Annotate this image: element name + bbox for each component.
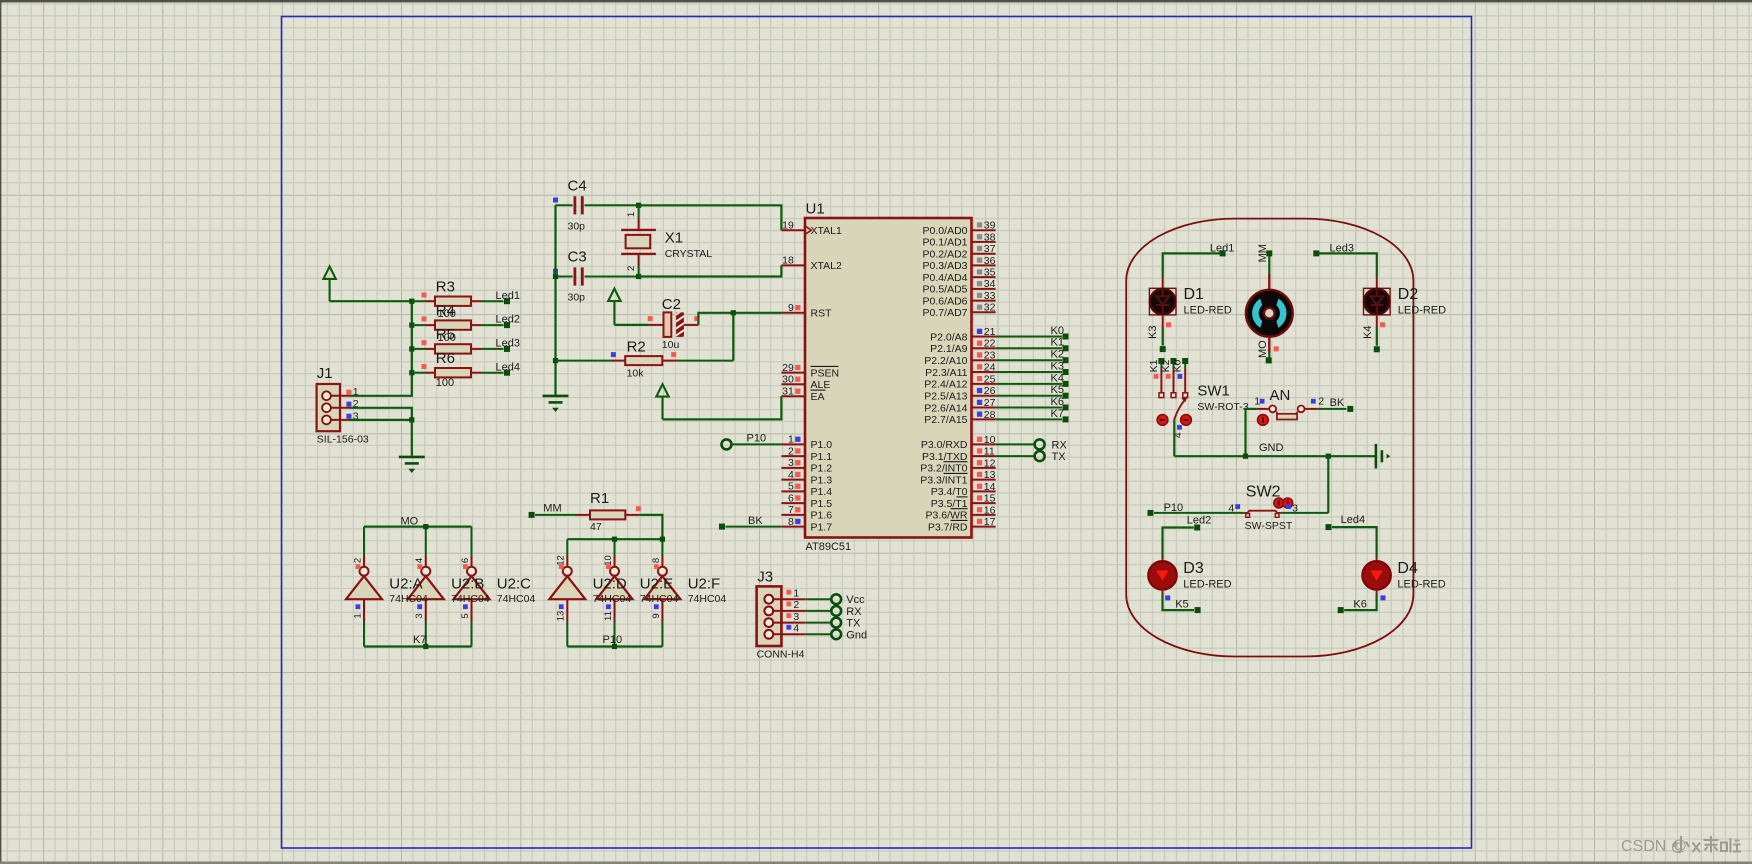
svg-text:R2: R2 [627,339,646,356]
terminal K0 [1182,358,1188,364]
svg-text:P1.1: P1.1 [811,451,833,463]
U1 pin 31 EA [781,386,824,404]
svg-text:MO: MO [1257,340,1269,358]
svg-text:J3: J3 [757,569,773,586]
svg-text:23: 23 [984,350,996,362]
wire J1 pin2 down [350,408,412,420]
svg-text:2: 2 [626,266,637,271]
SW1 contact square K2 [1171,393,1176,398]
J1 pin indicators [346,390,351,395]
overline T1 (P3.5) [957,496,968,498]
svg-text:BK: BK [748,515,763,527]
U1 pin 29 PSEN [781,362,839,380]
junction C4/X1 pin1 [636,203,641,208]
svg-text:SW1: SW1 [1197,383,1230,400]
svg-text:11: 11 [603,611,614,621]
svg-text:100: 100 [436,377,454,389]
junction resistor bus [409,370,414,375]
svg-text:P10: P10 [747,433,767,445]
SW1 contact square K1 [1159,393,1164,398]
terminal K2 [1063,357,1069,363]
LED D1 (off) [1149,288,1176,315]
svg-text:Led4: Led4 [496,361,520,373]
wire P10 to SW2 [1154,512,1244,514]
wire K3 [996,371,1062,373]
svg-text:SIL-156-03: SIL-156-03 [317,434,369,446]
resistor R5 [412,340,481,353]
power terminal VCC (left) [323,267,335,302]
AN press indicator [1258,415,1269,426]
svg-text:18: 18 [782,255,794,267]
svg-text:2: 2 [793,599,799,611]
terminal K2 [1171,358,1177,364]
svg-text:U1: U1 [806,201,825,218]
svg-text:4: 4 [414,558,425,563]
svg-text:P3.1/TXD: P3.1/TXD [922,451,968,463]
U1 pin 25 P2.4/A12 [924,373,995,390]
connector J3 [757,586,806,646]
SW1 end-stop left [1157,415,1168,426]
motor MM [1246,274,1293,353]
wire D1 cathode to K3 [1162,316,1164,327]
svg-text:P1.5: P1.5 [811,498,833,510]
U1 pin 36 P0.3/AD3 [923,255,996,272]
svg-text:6: 6 [460,558,471,563]
terminal K7 [1063,416,1069,422]
svg-text:RX: RX [1052,439,1068,451]
terminal Led2 [504,322,510,328]
svg-text:AN: AN [1270,387,1291,404]
U1 pin 32 P0.7/AD7 [923,302,996,319]
svg-text:C3: C3 [568,249,587,266]
resistor R6 [412,364,481,377]
capacitor C3 [553,267,639,285]
wire left decoupling bus [554,205,556,394]
wire K6 [996,407,1062,409]
U1 pin 38 P0.1/AD1 [923,231,996,248]
svg-text:P2.5/A13: P2.5/A13 [924,391,967,403]
ground (J1) [399,457,425,473]
inverter U2:A 74HC04 [346,527,382,647]
svg-text:2: 2 [1318,395,1324,407]
wire TX [996,455,1034,457]
svg-text:Led4: Led4 [1341,514,1365,526]
svg-text:7: 7 [788,504,794,516]
svg-text:K2: K2 [1051,349,1064,361]
svg-text:1: 1 [793,587,799,599]
svg-text:P3.0/RXD: P3.0/RXD [921,439,968,451]
overline EA [811,389,826,391]
svg-text:R3: R3 [436,279,455,296]
terminal Led4 [1326,524,1332,530]
svg-text:100: 100 [438,332,456,344]
svg-text:MM: MM [543,502,561,514]
svg-text:39: 39 [984,220,996,232]
svg-text:RX: RX [846,606,862,618]
svg-text:47: 47 [590,521,602,533]
wire SW1 contact K2 [1173,363,1175,369]
U1 pin 23 P2.2/A10 [924,350,995,367]
U1 pin 8 P1.7 [781,516,832,534]
overline INT1 [944,472,968,474]
wire GND bus [1174,455,1376,457]
terminal P10 (mouse) [1148,510,1154,516]
wire D3 cathode to K5 [1162,589,1164,594]
terminal K3 [1063,369,1069,375]
resistor R2 [556,352,734,365]
junction C3/X1 pin2 [636,274,641,279]
wire K1 [996,347,1062,349]
terminal K6 [1338,607,1344,613]
svg-text:K4: K4 [1051,372,1064,384]
svg-text:SW2: SW2 [1246,484,1281,501]
wire to ground [411,420,413,456]
svg-text:31: 31 [782,386,794,398]
connector J1 [317,384,350,431]
LED D2 (off) [1364,288,1391,315]
terminal Led3 [1313,250,1319,256]
inverter U2:B 74HC04 [408,527,444,647]
U1 pin 21 P2.0/A8 [930,326,996,343]
wire D4 cathode to K6 [1376,589,1378,594]
terminal K3 [1160,346,1166,352]
capacitor C4 [553,196,639,214]
sheet border frame [282,17,1472,849]
svg-text:R1: R1 [590,490,609,507]
U1 pin 28 P2.7/A15 [924,409,995,426]
wire J3 pin 1 to Vcc [805,598,830,600]
wire SW1 contact K0 [1184,363,1186,369]
wire R1 to U2:D-F bus [640,515,663,539]
switch SW1 rotor lever [1174,399,1186,420]
junction AN/GND [1243,454,1248,459]
ground (mouse, sideways) [1376,444,1390,469]
svg-text:K1: K1 [1051,337,1064,349]
U1 pin 37 P0.2/AD2 [923,243,996,260]
terminal Vcc [831,594,841,604]
mouse body outline [1126,219,1413,657]
terminal K5 [1063,393,1069,399]
svg-text:3: 3 [414,613,425,618]
U1 pin 2 P1.1 [781,445,832,463]
svg-text:Gnd: Gnd [846,629,867,641]
svg-text:22: 22 [984,338,996,350]
terminal Gnd [831,629,841,639]
U1 pin 34 P0.5/AD5 [923,278,996,296]
svg-text:10: 10 [984,434,996,446]
svg-text:RST: RST [811,308,833,320]
U1 pin 35 P0.4/AD4 [923,267,996,284]
svg-text:4: 4 [793,623,799,635]
inverter U2:E 74HC04 [597,539,633,646]
svg-text:27: 27 [984,397,996,409]
svg-text:U2:C: U2:C [497,576,531,593]
svg-text:P0.1/AD1: P0.1/AD1 [923,237,968,249]
terminal K4 [1374,346,1380,352]
wire K4 [996,383,1062,385]
U1 pin 3 P1.2 [781,457,832,475]
J3 pin 4 indicator [786,625,791,630]
wire RST node down to R2 [732,313,734,361]
svg-text:11: 11 [984,446,995,458]
junction MO bus [423,524,428,529]
svg-text:25: 25 [984,373,996,385]
terminal K0 [1063,334,1069,340]
wire motor bottom to MO [1268,353,1270,358]
svg-text:LED-RED: LED-RED [1397,579,1445,591]
terminal K6 [1063,405,1069,411]
svg-text:U2:B: U2:B [451,576,484,593]
U1 pin 13 P3.3/INT1 [920,469,995,486]
wire Led4 to D4 [1332,527,1377,557]
wire VCC to C2 [614,324,649,326]
svg-text:36: 36 [984,255,996,267]
terminal RX [1035,439,1045,449]
svg-text:28: 28 [984,409,996,421]
junction SW2/GND [1326,454,1331,459]
junction resistor bus [409,346,414,351]
U1 pin 27 P2.6/A14 [924,397,995,414]
U1 pin 18 XTAL2 [781,255,842,273]
svg-text:15: 15 [984,493,996,505]
svg-text:K7: K7 [1051,408,1064,420]
U1 pin 12 P3.2/INT0 [920,457,995,474]
svg-text:CONN-H4: CONN-H4 [757,648,805,660]
U1 pin 17 P3.7/RD [928,516,996,533]
svg-text:P2.6/A14: P2.6/A14 [924,402,967,414]
svg-text:EA: EA [811,391,825,403]
terminal RX [831,606,841,616]
svg-text:1: 1 [626,212,637,217]
svg-text:8: 8 [651,558,662,563]
wire C2 to RST [698,313,781,325]
wire R1 output bus (U2:D-F outputs) [567,538,662,540]
svg-text:LED-RED: LED-RED [1184,305,1232,317]
switch SW2 SW-SPST [1244,511,1281,518]
svg-text:5: 5 [460,613,471,618]
terminal K4 [1063,381,1069,387]
svg-text:P0.7/AD7: P0.7/AD7 [923,307,968,319]
wire SW1 contact K1 [1160,363,1162,369]
svg-text:12: 12 [984,457,996,469]
svg-text:74HC04: 74HC04 [593,593,632,605]
svg-text:Led2: Led2 [496,314,520,326]
svg-text:K0: K0 [1172,359,1184,372]
svg-text:P2.0/A8: P2.0/A8 [930,331,968,343]
wire RX [996,443,1034,445]
svg-text:1: 1 [788,434,794,446]
wire X1 node to XTAL2 [639,265,782,276]
wire K7 [996,418,1062,420]
svg-text:TX: TX [846,618,861,630]
U1 pin 30 ALE [781,374,830,392]
svg-text:P0.6/AD6: P0.6/AD6 [923,295,968,307]
svg-text:U2:A: U2:A [389,576,422,593]
svg-text:P10: P10 [603,634,623,646]
resistor R3 [412,293,481,306]
U1 XTAL1 clock mark [805,226,811,235]
svg-text:4: 4 [788,469,794,481]
terminal K1 [1158,358,1164,364]
svg-text:74HC04: 74HC04 [451,593,490,605]
svg-text:4: 4 [1228,502,1234,514]
J3 pin 2 indicator [786,602,791,607]
svg-text:P2.3/A11: P2.3/A11 [925,367,968,379]
inverter U2:F 74HC04 [644,539,680,646]
wire J3 pin 2 to RX [805,610,830,612]
wire VCC to resistor bus / J1 pin1 [330,301,412,396]
svg-text:30p: 30p [568,292,586,304]
svg-text:P0.0/AD0: P0.0/AD0 [923,225,968,237]
svg-text:D2: D2 [1398,286,1419,303]
U1 pin 4 P1.3 [781,469,832,487]
svg-text:37: 37 [984,243,996,255]
wire VCC to EA [663,396,782,419]
wire Led1 to D1 [1163,253,1223,277]
svg-text:21: 21 [984,326,996,338]
overline PSEN [811,365,839,367]
svg-text:BK: BK [1330,397,1345,409]
svg-text:P1.4: P1.4 [811,486,833,498]
power terminal VCC (RST) [608,289,620,325]
svg-text:SW-SPST: SW-SPST [1245,520,1293,532]
svg-text:8: 8 [788,516,794,528]
terminal K1 [1063,345,1069,351]
svg-text:33: 33 [984,290,996,302]
junction resistor bus [409,323,414,328]
svg-text:26: 26 [984,385,996,397]
SW1 end-stop right [1181,415,1192,426]
svg-text:34: 34 [984,278,996,290]
svg-text:10k: 10k [627,368,645,380]
svg-text:K6: K6 [1353,599,1366,611]
svg-text:10: 10 [603,555,614,566]
svg-text:K0: K0 [1051,325,1064,337]
svg-text:P2.2/A10: P2.2/A10 [924,355,967,367]
LED D4 (on) [1362,561,1390,589]
junction RST node [731,310,736,315]
svg-text:K3: K3 [1051,360,1064,372]
svg-text:3: 3 [793,611,799,623]
svg-text:K4: K4 [1362,325,1374,338]
svg-text:CRYSTAL: CRYSTAL [665,248,713,260]
svg-text:AT89C51: AT89C51 [806,541,852,553]
svg-text:16: 16 [984,504,996,516]
svg-text:3: 3 [788,457,794,469]
U1 pin 33 P0.6/AD6 [923,290,996,307]
svg-text:D3: D3 [1183,560,1204,577]
svg-text:K3: K3 [1147,325,1159,338]
junction P10 bus [612,644,617,649]
svg-text:K5: K5 [1175,599,1188,611]
svg-text:CSDN @: CSDN @ [1621,838,1687,855]
svg-text:C2: C2 [662,296,681,313]
junction R1 bus right [660,537,665,542]
svg-text:2: 2 [352,558,363,563]
svg-text:Led3: Led3 [496,338,520,350]
svg-text:K2: K2 [1160,359,1172,372]
svg-text:P1.7: P1.7 [811,521,833,533]
svg-text:X1: X1 [665,230,683,247]
svg-text:74HC04: 74HC04 [640,593,679,605]
svg-text:1: 1 [353,386,359,398]
svg-text:1: 1 [352,613,363,618]
svg-text:XTAL1: XTAL1 [811,225,842,237]
capacitor C2 (polarised) [648,305,700,346]
resistor R1 [535,506,641,519]
svg-text:TX: TX [1052,451,1067,463]
svg-text:LED-RED: LED-RED [1398,305,1446,317]
svg-text:MM: MM [1257,244,1269,262]
svg-text:K1: K1 [1148,359,1160,372]
wire D2 cathode to K4 [1376,316,1378,327]
svg-text:P3.5/T1: P3.5/T1 [931,498,968,510]
ground (C3/C4/R2) [543,396,569,412]
svg-text:Led1: Led1 [496,290,520,302]
svg-text:ALE: ALE [811,379,831,391]
svg-text:32: 32 [984,302,996,314]
crystal X1 [621,205,656,276]
wire K5 [996,395,1062,397]
svg-text:D4: D4 [1397,560,1418,577]
J3 pin 1 indicator [786,590,791,595]
terminal Led2 [1194,525,1200,531]
overline WR [951,508,968,510]
svg-text:Led1: Led1 [1210,242,1234,254]
svg-text:38: 38 [984,231,996,243]
svg-text:30p: 30p [568,220,586,232]
terminal MM (motor top) [1266,250,1272,256]
svg-text:2: 2 [788,445,794,457]
LED D3 (on) [1148,561,1176,589]
wire GND bus to SW2 [1327,456,1329,513]
SW2 actuator dots [1274,498,1284,508]
U1 pin 22 P2.1/A9 [930,338,996,355]
window top edge band [0,0,1752,2]
svg-text:MO: MO [401,515,419,527]
U1 pin 19 XTAL1 [781,219,842,237]
U1 pin 11 P3.1/TXD [922,446,996,463]
J3 pin 3 indicator [786,613,791,618]
U1 pin 9 RST [781,302,832,320]
wire X1 node to XTAL1 [639,205,782,230]
wire R4 to Led2 terminal [481,324,504,326]
junction R1 bus [612,537,617,542]
svg-text:30: 30 [782,374,794,386]
svg-text:P0.3/AD3: P0.3/AD3 [923,260,968,272]
svg-text:P2.1/A9: P2.1/A9 [930,343,968,355]
U1 pin 6 P1.5 [781,492,832,510]
wire Led2 to D3 [1163,528,1194,558]
svg-text:P3.7/RD: P3.7/RD [928,521,968,533]
wire SW1 pole to GND bus [1173,419,1175,456]
svg-text:J1: J1 [317,365,333,382]
U1 pin 7 P1.6 [781,504,832,522]
resistor R4 [412,316,481,329]
wire K7 bus (U2:A-C inputs) [364,645,472,647]
svg-text:P1.2: P1.2 [811,463,833,475]
terminal Led3 [504,346,510,352]
wire J3 pin 3 to TX [805,622,830,624]
svg-text:K5: K5 [1051,384,1064,396]
inverter U2:C 74HC04 [454,527,490,647]
svg-text:29: 29 [782,362,794,374]
SW1 pole indicator [1177,425,1182,430]
SW2 pin 3 [1286,504,1291,509]
svg-text:5: 5 [788,481,794,493]
wire P10 to P1.0 [732,443,782,445]
svg-text:Led3: Led3 [1330,242,1354,254]
